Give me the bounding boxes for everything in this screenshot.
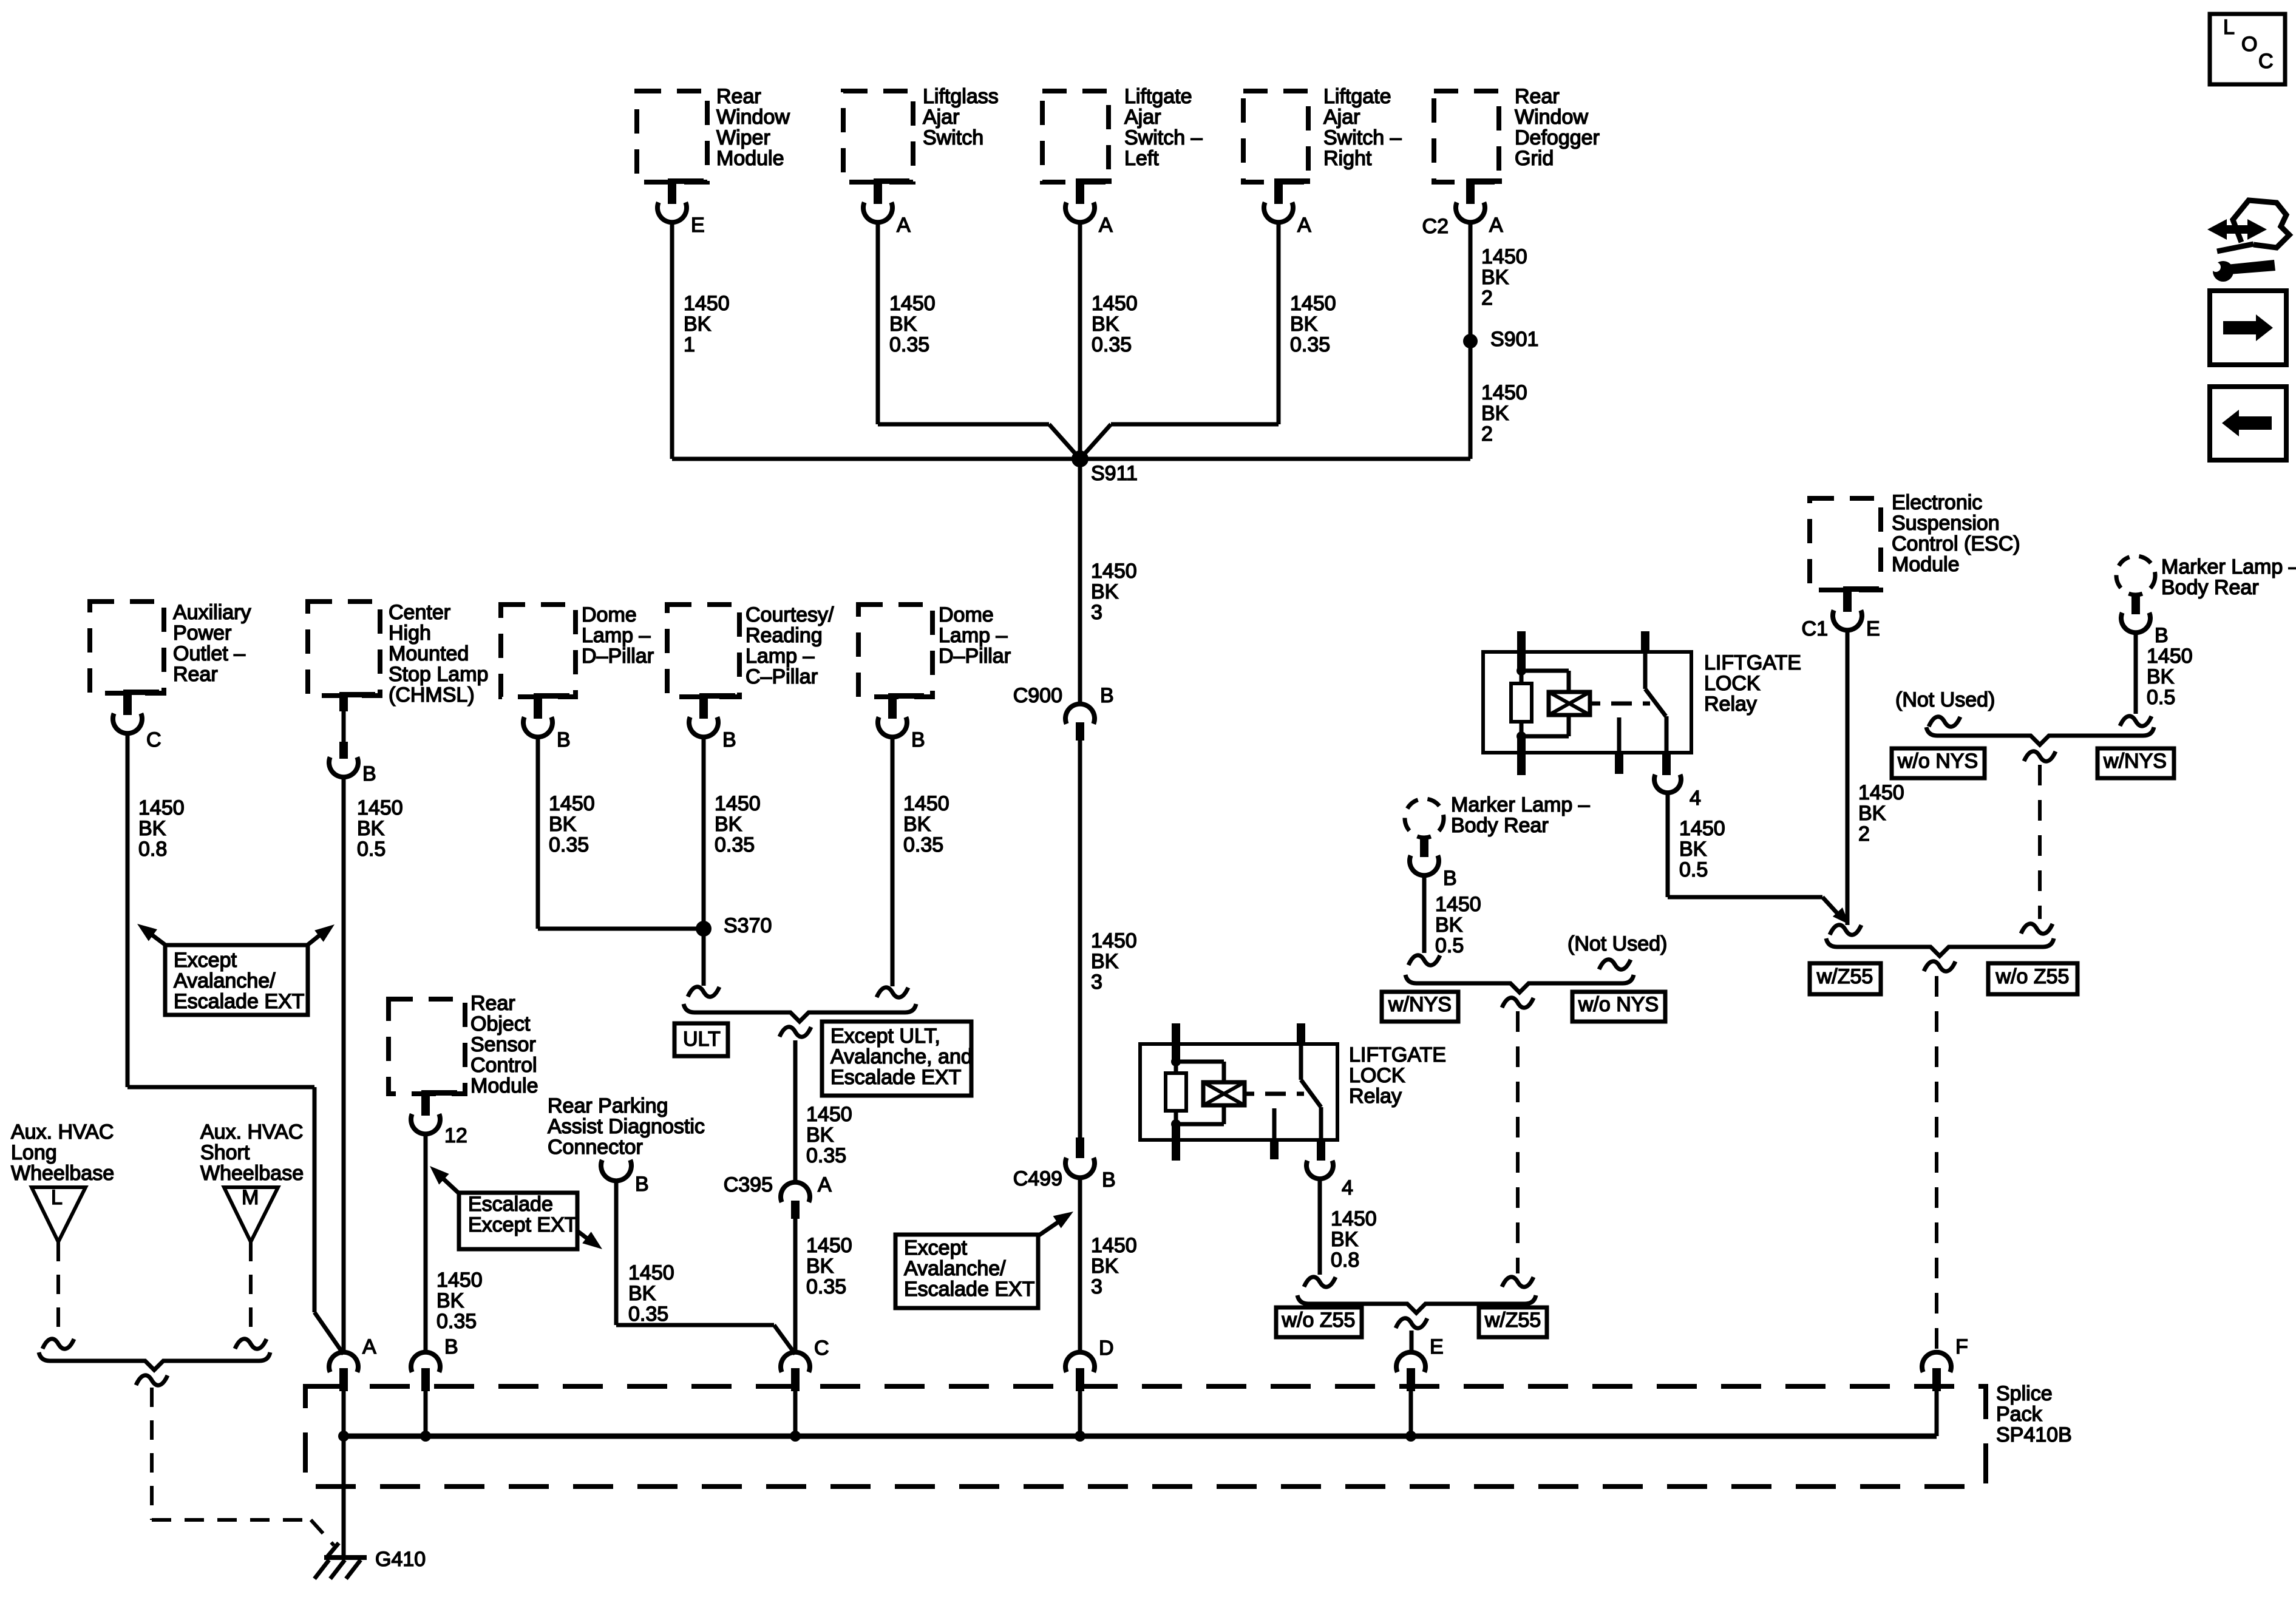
brace joining HVAC grounds — [39, 1352, 270, 1370]
svg-text:Rear: Rear — [173, 663, 218, 686]
svg-text:BK: BK — [684, 313, 712, 336]
svg-text:B: B — [1102, 1168, 1116, 1192]
svg-text:BK: BK — [1481, 402, 1509, 425]
svg-text:Suspension: Suspension — [1892, 512, 2000, 535]
svg-text:S901: S901 — [1490, 328, 1538, 351]
svg-text:1450: 1450 — [1481, 381, 1527, 404]
connector pin B of CHMSL — [329, 692, 376, 785]
svg-text:BK: BK — [1435, 914, 1463, 937]
svg-text:Lamp –: Lamp – — [939, 624, 1007, 647]
brace joining dome/courtesy lamp grounds — [684, 1004, 916, 1022]
svg-text:Escalade: Escalade — [468, 1193, 553, 1216]
svg-text:D–Pillar: D–Pillar — [582, 645, 654, 668]
svg-text:D–Pillar: D–Pillar — [939, 645, 1011, 668]
svg-text:C2: C2 — [1422, 215, 1449, 238]
svg-text:Center: Center — [389, 601, 450, 624]
svg-text:w/Z55: w/Z55 — [1484, 1309, 1541, 1332]
connector C499 pin B (in-line) — [1013, 1137, 1116, 1192]
svg-text:BK: BK — [1290, 313, 1318, 336]
svg-text:B: B — [2155, 624, 2169, 647]
svg-text:M: M — [242, 1186, 259, 1209]
svg-text:BK: BK — [715, 813, 742, 836]
svg-text:0.8: 0.8 — [138, 838, 167, 861]
svg-text:A: A — [1489, 214, 1503, 237]
svg-text:Pack: Pack — [1996, 1403, 2043, 1426]
wire break below lower Z55 brace — [1396, 1318, 1427, 1328]
wire 1450 BK 3 from C499 to splice pack pin D — [1080, 1176, 1137, 1354]
wire 1450 BK 2 from ESC module to w/Z55 brace — [1847, 629, 1904, 925]
svg-text:Except EXT: Except EXT — [468, 1213, 577, 1236]
svg-text:(Not Used): (Not Used) — [1567, 932, 1667, 955]
svg-text:0.5: 0.5 — [2147, 686, 2175, 709]
svg-text:w/o NYS: w/o NYS — [1578, 993, 1659, 1016]
wire 1450 BK 0.35 from liftglass switch to S911 — [878, 221, 1080, 459]
component: Courtesy/Reading Lamp - C-Pillar (dashed box) — [667, 603, 834, 697]
dashed wire from HVAC short wheelbase — [235, 1242, 267, 1349]
svg-text:0.35: 0.35 — [806, 1275, 846, 1298]
svg-text:1450: 1450 — [1858, 781, 1904, 804]
svg-text:S911: S911 — [1091, 462, 1138, 485]
svg-text:BK: BK — [138, 817, 166, 840]
svg-text:BK: BK — [806, 1255, 834, 1278]
connector pin B of right marker lamp — [2121, 594, 2169, 647]
svg-text:LOCK: LOCK — [1349, 1064, 1405, 1087]
icon: service tool symbol — [2207, 200, 2289, 282]
svg-text:Window: Window — [1515, 106, 1588, 129]
relay K1: LIFTGATE LOCK Relay (coil, resistor and switch) — [1483, 631, 1801, 775]
svg-text:Module: Module — [1892, 553, 1960, 576]
svg-text:High: High — [389, 622, 431, 645]
svg-text:ULT: ULT — [683, 1028, 721, 1051]
svg-text:C: C — [146, 728, 161, 751]
svg-text:E: E — [691, 214, 705, 237]
svg-text:Switch –: Switch – — [1323, 126, 1402, 149]
svg-text:Object: Object — [470, 1012, 531, 1036]
svg-text:Aux. HVAC: Aux. HVAC — [11, 1120, 114, 1144]
svg-text:w/o Z55: w/o Z55 — [1995, 965, 2070, 988]
wire break below HVAC brace — [136, 1375, 168, 1385]
svg-text:Lamp –: Lamp – — [582, 624, 650, 647]
wire 1450 BK 2 from S901 to S911 — [1080, 341, 1527, 459]
wire 1450 BK 3 from S911 to C900 — [1080, 459, 1137, 705]
component: Liftgate Ajar Switch - Right (dashed box) — [1243, 85, 1402, 182]
svg-text:BK: BK — [436, 1289, 464, 1312]
svg-text:0.35: 0.35 — [903, 833, 943, 856]
brace for NYS option (middle) — [1405, 975, 1634, 992]
svg-text:4: 4 — [1690, 787, 1701, 810]
svg-text:Outlet –: Outlet – — [173, 642, 245, 665]
svg-text:LIFTGATE: LIFTGATE — [1704, 651, 1801, 674]
svg-text:C395: C395 — [724, 1173, 773, 1196]
wire break above lower Z55 brace left — [1304, 1277, 1336, 1287]
svg-text:Assist Diagnostic: Assist Diagnostic — [548, 1115, 705, 1138]
svg-text:Liftgate: Liftgate — [1323, 85, 1391, 108]
wire 1450 BK 0.8 from lower relay pin 4 to w/o Z55 brace — [1320, 1178, 1377, 1275]
wire horizontal bus into S911 — [672, 457, 1080, 461]
svg-text:Wheelbase: Wheelbase — [200, 1162, 304, 1185]
wire 1450 BK 0.5 from CHMSL to splice pack pin A — [344, 776, 403, 1354]
svg-text:A: A — [897, 214, 911, 237]
svg-text:w/NYS: w/NYS — [2103, 750, 2167, 773]
svg-text:F: F — [1955, 1335, 1968, 1358]
component: Dome Lamp - D-Pillar left (dashed box) — [501, 603, 654, 697]
svg-text:D: D — [1099, 1337, 1114, 1360]
connector pin A of Liftgate Ajar Switch - Left — [1065, 178, 1113, 237]
svg-text:1450: 1450 — [1091, 1234, 1137, 1257]
splice node S370 — [696, 914, 772, 937]
brace for NYS option (right) — [1926, 727, 2154, 745]
svg-text:0.35: 0.35 — [1092, 333, 1132, 356]
svg-text:Switch –: Switch – — [1124, 126, 1203, 149]
splice pack connector pin B — [411, 1335, 458, 1442]
wire 1450 BK 0.35 from parking assist connector to splice pack pin C — [616, 1179, 795, 1354]
svg-text:C1: C1 — [1802, 617, 1828, 640]
svg-text:Right: Right — [1323, 147, 1372, 170]
svg-text:1450: 1450 — [1435, 893, 1481, 916]
svg-text:1450: 1450 — [1091, 560, 1137, 583]
wire 1450 BK 0.35 from rear object sensor to splice pack pin B — [426, 1133, 483, 1354]
wire 1450 BK 0.35 from brace to C395 — [795, 1040, 852, 1184]
wire 1450 BK 0.8 from aux power outlet to splice pack pin A — [127, 732, 344, 1354]
connector pin A of Liftglass Ajar Switch — [863, 178, 911, 237]
svg-text:Rear: Rear — [470, 992, 515, 1015]
option label box w/o NYS (right) — [1892, 748, 1985, 778]
svg-text:BK: BK — [1858, 802, 1886, 825]
component: Dome Lamp - D-Pillar right (dashed box) — [858, 603, 1011, 697]
svg-text:Connector: Connector — [548, 1136, 643, 1159]
icon: forward arrow box — [2210, 291, 2286, 365]
svg-text:B: B — [1100, 684, 1114, 707]
svg-text:B: B — [635, 1173, 649, 1196]
svg-text:E: E — [1430, 1335, 1444, 1358]
svg-text:Switch: Switch — [923, 126, 983, 149]
svg-text:Escalade EXT: Escalade EXT — [830, 1066, 961, 1089]
svg-text:C–Pillar: C–Pillar — [746, 665, 818, 688]
connector pin B of right dome lamp — [878, 693, 925, 751]
svg-text:1450: 1450 — [889, 292, 936, 315]
svg-text:B: B — [722, 728, 736, 751]
svg-text:1450: 1450 — [806, 1234, 852, 1257]
svg-text:B: B — [444, 1335, 458, 1358]
wire break above middle NYS brace left — [1408, 955, 1440, 965]
svg-text:BK: BK — [1481, 266, 1509, 289]
svg-text:2: 2 — [1481, 422, 1493, 446]
svg-text:C: C — [814, 1337, 829, 1360]
svg-text:1450: 1450 — [1091, 929, 1137, 952]
svg-text:Avalanche/: Avalanche/ — [904, 1257, 1006, 1280]
svg-text:1450: 1450 — [1481, 245, 1527, 268]
svg-text:1450: 1450 — [1290, 292, 1336, 315]
component: Electronic Suspension Control (ESC) Module (dashed box) — [1810, 491, 2020, 590]
callout box: Except Avalanche/Escalade EXT (points to C499 wire) — [895, 1212, 1073, 1308]
dashed wire from middle NYS brace to lower Z55 brace — [1502, 1011, 1533, 1287]
connector C2 pin A of Rear Window Defogger Grid — [1422, 178, 1503, 238]
label (Not Used) for right NYS brace — [1895, 688, 1995, 727]
wire 1450 BK 0.35 from C395 to splice pack pin C — [795, 1219, 852, 1354]
wire 1450 BK 0.5 from relay pin 4 to w/Z55 brace — [1668, 792, 1849, 924]
svg-text:BK: BK — [1091, 1255, 1119, 1278]
splice pack connector pin E — [1396, 1335, 1444, 1442]
callout box: Except Avalanche/Escalade EXT (points to outlet and CHMSL wires) — [137, 924, 335, 1015]
svg-text:Stop Lamp: Stop Lamp — [389, 663, 488, 686]
callout box: Escalade Except EXT (points to sensor and parking-assist wires) — [430, 1166, 602, 1249]
svg-text:BK: BK — [2147, 665, 2175, 688]
svg-text:Left: Left — [1124, 147, 1159, 170]
svg-text:A: A — [1297, 214, 1311, 237]
connector C900 pin B (in-line) — [1013, 684, 1114, 741]
node: Aux. HVAC Short Wheelbase (triangle M) — [200, 1120, 304, 1242]
svg-text:0.5: 0.5 — [1435, 934, 1464, 957]
svg-text:0.35: 0.35 — [549, 833, 589, 856]
component: Marker Lamp - Body Rear (right, dashed circle) — [2116, 555, 2296, 599]
splice pack SP410B (dashed box) — [305, 1382, 2072, 1486]
component: Rear Window Wiper Module (dashed box) — [637, 85, 790, 182]
svg-text:L: L — [51, 1186, 63, 1209]
svg-text:Rear: Rear — [1515, 85, 1560, 108]
svg-text:(CHMSL): (CHMSL) — [389, 683, 475, 707]
svg-text:Relay: Relay — [1704, 693, 1757, 716]
svg-text:B: B — [362, 762, 376, 785]
svg-text:1450: 1450 — [357, 796, 403, 819]
svg-text:1450: 1450 — [903, 792, 949, 815]
dashed wire from HVAC long wheelbase — [42, 1242, 74, 1349]
connector pin A of Liftgate Ajar Switch - Right — [1264, 178, 1311, 237]
svg-text:0.35: 0.35 — [806, 1144, 846, 1167]
option label box w/o NYS (middle) — [1572, 992, 1665, 1022]
svg-text:BK: BK — [889, 313, 917, 336]
svg-text:1450: 1450 — [806, 1103, 852, 1126]
component: Auxiliary Power Outlet - Rear (dashed box) — [90, 601, 251, 693]
svg-text:0.35: 0.35 — [436, 1310, 477, 1333]
option label box w/o Z55 (right) — [1988, 963, 2077, 994]
svg-text:Control: Control — [470, 1054, 537, 1077]
svg-text:0.35: 0.35 — [889, 333, 929, 356]
svg-text:SP410B: SP410B — [1996, 1423, 2072, 1446]
component: Rear Parking Assist Diagnostic Connector — [548, 1094, 705, 1181]
wire break below dome-lamp brace — [779, 1027, 811, 1037]
svg-text:Module: Module — [716, 147, 784, 170]
svg-text:BK: BK — [1331, 1228, 1359, 1251]
svg-text:Body Rear: Body Rear — [2161, 576, 2259, 599]
svg-text:BK: BK — [806, 1124, 834, 1147]
svg-text:C499: C499 — [1013, 1167, 1062, 1190]
wire 1450 BK 0.35 from right dome lamp to ULT brace — [892, 736, 949, 986]
svg-text:(Not Used): (Not Used) — [1895, 688, 1995, 711]
svg-text:1450: 1450 — [715, 792, 761, 815]
connector pin 4 of upper liftgate lock relay — [1654, 775, 1701, 810]
svg-text:B: B — [557, 728, 571, 751]
svg-text:12: 12 — [444, 1124, 467, 1147]
svg-text:Aux. HVAC: Aux. HVAC — [200, 1120, 303, 1144]
svg-text:3: 3 — [1091, 1275, 1102, 1298]
option label box ULT — [674, 1023, 728, 1056]
svg-text:1450: 1450 — [1331, 1207, 1377, 1230]
svg-text:Except: Except — [904, 1236, 967, 1259]
svg-text:Escalade EXT: Escalade EXT — [174, 990, 304, 1013]
wire break above ULT brace right — [877, 988, 908, 997]
wire 1450 BK 0.5 from right marker lamp to NYS brace — [2136, 631, 2193, 714]
svg-text:Auxiliary: Auxiliary — [173, 601, 251, 624]
dashed wire from HVAC brace to G410 lead — [152, 1388, 334, 1545]
svg-text:w/Z55: w/Z55 — [1816, 965, 1873, 988]
svg-text:w/NYS: w/NYS — [1388, 993, 1452, 1016]
option label box w/o Z55 (lower) — [1276, 1307, 1362, 1337]
svg-text:Marker Lamp –: Marker Lamp – — [1451, 793, 1590, 816]
component: Center High Mounted Stop Lamp CHMSL (dashed box) — [308, 601, 488, 707]
svg-text:C: C — [2258, 50, 2274, 73]
dashed wire from right NYS brace to right Z55 brace — [2021, 765, 2053, 934]
svg-text:BK: BK — [1679, 838, 1707, 861]
svg-text:L: L — [2223, 16, 2235, 39]
svg-text:1450: 1450 — [628, 1261, 674, 1284]
svg-text:Avalanche/: Avalanche/ — [174, 969, 276, 992]
svg-text:BK: BK — [628, 1282, 656, 1305]
svg-text:3: 3 — [1091, 971, 1102, 994]
svg-text:Except: Except — [174, 949, 237, 972]
svg-text:A: A — [1099, 214, 1113, 237]
svg-text:Lamp –: Lamp – — [746, 645, 814, 668]
svg-text:Rear Parking: Rear Parking — [548, 1094, 668, 1117]
svg-text:Electronic: Electronic — [1892, 491, 1982, 514]
svg-text:Splice: Splice — [1996, 1382, 2053, 1405]
svg-text:A: A — [362, 1335, 376, 1358]
svg-text:O: O — [2241, 33, 2257, 56]
svg-text:Except ULT,: Except ULT, — [830, 1025, 940, 1048]
svg-text:0.5: 0.5 — [1679, 858, 1708, 881]
svg-text:Reading: Reading — [746, 624, 823, 647]
svg-text:1450: 1450 — [2147, 645, 2193, 668]
splice node S901 — [1463, 328, 1538, 351]
svg-text:Rear: Rear — [716, 85, 761, 108]
svg-text:Grid: Grid — [1515, 147, 1554, 170]
option label box Except ULT, Avalanche, and Escalade EXT — [822, 1022, 973, 1096]
svg-text:E: E — [1866, 617, 1880, 640]
brace for Z55 option (lower) — [1297, 1295, 1536, 1313]
wire 1450 BK 0.35 from right liftgate switch to S911 — [1080, 221, 1336, 459]
wire 1450 BK 0.35 from left liftgate switch to S911 — [1080, 221, 1138, 459]
svg-text:Dome: Dome — [939, 603, 994, 626]
node: Aux. HVAC Long Wheelbase (triangle L) — [11, 1120, 114, 1242]
svg-text:Window: Window — [716, 106, 790, 129]
svg-text:BK: BK — [1092, 313, 1119, 336]
svg-text:Ajar: Ajar — [1323, 106, 1360, 129]
wire 1450 BK 0.5 from middle marker lamp to w/NYS brace — [1424, 874, 1481, 957]
svg-text:LIFTGATE: LIFTGATE — [1349, 1043, 1446, 1066]
splice pack connector pin F — [1922, 1335, 1968, 1436]
ground G410 — [314, 1543, 426, 1579]
connector C395 pin A (in-line) — [724, 1173, 832, 1219]
svg-text:Defogger: Defogger — [1515, 126, 1600, 149]
svg-text:w/o NYS: w/o NYS — [1897, 750, 1978, 773]
svg-text:0.35: 0.35 — [1290, 333, 1330, 356]
connector pin E of Rear Window Wiper Module — [657, 178, 705, 237]
svg-text:A: A — [818, 1173, 832, 1196]
svg-text:Control (ESC): Control (ESC) — [1892, 532, 2020, 555]
svg-text:BK: BK — [1091, 580, 1119, 603]
svg-text:Liftglass: Liftglass — [923, 85, 999, 108]
svg-text:1450: 1450 — [436, 1269, 483, 1292]
svg-text:Dome: Dome — [582, 603, 637, 626]
component: Rear Window Defogger Grid (dashed box) — [1434, 85, 1600, 182]
svg-text:1450: 1450 — [1679, 817, 1725, 840]
icon: back arrow box — [2210, 387, 2286, 460]
svg-text:G410: G410 — [375, 1548, 426, 1571]
svg-text:Relay: Relay — [1349, 1085, 1402, 1108]
option label box w/NYS (right) — [2097, 748, 2174, 778]
connector pin B of courtesy/reading lamp — [689, 693, 736, 751]
svg-text:Avalanche, and: Avalanche, and — [830, 1045, 973, 1068]
component: Marker Lamp - Body Rear (middle, dashed circle) — [1405, 793, 1590, 838]
svg-text:1450: 1450 — [1092, 292, 1138, 315]
svg-text:4: 4 — [1342, 1176, 1353, 1199]
svg-text:B: B — [1443, 867, 1457, 890]
splice pack connector pin C — [781, 1337, 829, 1442]
svg-text:1450: 1450 — [684, 292, 730, 315]
svg-text:w/o Z55: w/o Z55 — [1282, 1309, 1356, 1332]
splice pack connector pin A — [329, 1335, 376, 1442]
brace for Z55 option (right) — [1826, 938, 2054, 956]
svg-text:Courtesy/: Courtesy/ — [746, 603, 834, 626]
svg-text:0.35: 0.35 — [715, 833, 755, 856]
wire from lower Z55 brace to splice pack pin E — [1410, 1331, 1414, 1354]
svg-text:Ajar: Ajar — [923, 106, 959, 129]
svg-text:Power: Power — [173, 622, 231, 645]
svg-text:Ajar: Ajar — [1124, 106, 1161, 129]
svg-text:Module: Module — [470, 1074, 538, 1097]
component: Liftglass Ajar Switch (dashed box) — [843, 85, 999, 182]
label (Not Used) for middle NYS brace — [1567, 932, 1667, 969]
wire break below right Z55 brace — [1924, 961, 1955, 971]
splice node S911 — [1072, 450, 1138, 485]
wire 1450 BK 3 from C900 to C499 — [1080, 741, 1137, 1139]
dashed wire from right Z55 brace to splice pack pin F — [1935, 976, 1938, 1353]
svg-text:BK: BK — [1091, 950, 1119, 973]
svg-text:BK: BK — [357, 817, 385, 840]
relay K2: LIFTGATE LOCK Relay (coil, resistor and switch) — [1140, 1023, 1446, 1161]
svg-text:Sensor: Sensor — [470, 1033, 536, 1056]
svg-text:1: 1 — [684, 333, 695, 356]
svg-text:1450: 1450 — [549, 792, 595, 815]
svg-text:Mounted: Mounted — [389, 642, 469, 665]
wire break below right NYS brace — [2024, 751, 2056, 761]
svg-text:2: 2 — [1858, 822, 1870, 846]
svg-text:Body Rear: Body Rear — [1451, 814, 1549, 837]
wire 1450 BK 1 from wiper module to S911 — [672, 221, 730, 459]
connector pin C of Auxiliary Power Outlet — [113, 690, 161, 751]
svg-text:Short: Short — [200, 1141, 250, 1164]
connector pin 12 of rear object sensor module — [411, 1090, 467, 1147]
svg-text:Escalade EXT: Escalade EXT — [904, 1278, 1034, 1301]
pin B label of rear parking assist connector — [635, 1173, 649, 1196]
option label box w/Z55 (lower) — [1479, 1307, 1547, 1337]
svg-text:C900: C900 — [1013, 684, 1062, 707]
wire break below middle NYS brace — [1502, 998, 1533, 1008]
wire break above right Z55 brace left — [1830, 925, 1861, 935]
connector pin B of left dome lamp — [523, 693, 571, 751]
component: Rear Object Sensor Control Module (dashed box) — [389, 992, 538, 1097]
component: Liftgate Ajar Switch - Left (dashed box) — [1042, 85, 1203, 182]
wire break above right NYS brace right — [2120, 716, 2152, 726]
svg-text:Wheelbase: Wheelbase — [11, 1162, 114, 1185]
wire 1450 BK 0.35 from left dome lamp to S370 — [538, 736, 704, 929]
connector pin 4 of lower liftgate lock relay — [1306, 1161, 1353, 1199]
wire break above ULT brace left — [688, 987, 719, 997]
svg-text:BK: BK — [903, 813, 931, 836]
connector pin B of middle marker lamp — [1410, 836, 1457, 890]
svg-text:Wiper: Wiper — [716, 126, 770, 149]
svg-text:3: 3 — [1091, 601, 1102, 624]
svg-text:B: B — [911, 728, 925, 751]
